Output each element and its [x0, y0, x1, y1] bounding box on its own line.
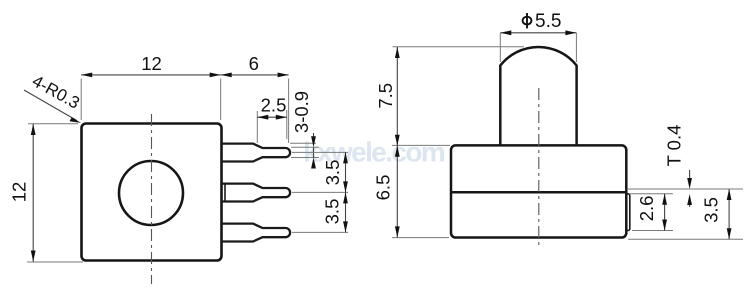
dimension 12 (left height): [28, 123, 78, 125]
dimension 3-0.9 (pin diameter callout): [290, 142, 316, 144]
dimension 3.5 (pin pitch lower): [345, 192, 347, 232]
dimension 12 (top width): [80, 79, 82, 121]
right view: terminal tab on right: [626, 194, 630, 231]
dimension 6 (pin length): [288, 79, 290, 144]
right view: plunger button: [500, 47, 576, 145]
svg-text:3.5: 3.5: [322, 160, 343, 186]
pin 1 (top): [222, 144, 290, 162]
pin centerline extensions: [292, 151, 348, 153]
dimension phi5.5 (button diameter): [499, 33, 501, 62]
svg-text:T 0.4: T 0.4: [664, 125, 685, 167]
svg-text:7.5: 7.5: [375, 83, 396, 109]
right view: vertical centerline (dashed): [538, 88, 540, 246]
svg-text:2.6: 2.6: [636, 196, 657, 222]
svg-text:12: 12: [141, 53, 162, 74]
dimension 7.5 (button height): [393, 46, 525, 48]
svg-text:6: 6: [249, 53, 259, 74]
right view: body: [451, 145, 626, 237]
label 4-R0.3 corner radius leader: [24, 90, 77, 121]
svg-text:12: 12: [9, 182, 30, 203]
dimension 3.5 (pin pitch upper): [345, 152, 347, 192]
svg-text:2.5: 2.5: [261, 95, 287, 116]
pin 3 (bottom): [222, 224, 290, 242]
svg-text:3-0.9: 3-0.9: [291, 91, 312, 133]
left view: vertical centerline (dashed): [151, 114, 153, 284]
svg-text:5.5: 5.5: [535, 11, 561, 32]
left view: switch body square: [82, 124, 222, 261]
dimension 2.5 (pin tip length): [256, 111, 258, 143]
dimension T0.4 (divider thickness): [628, 188, 743, 190]
pin 2 (middle): [222, 184, 290, 202]
left view: button circle: [119, 161, 183, 225]
svg-text:6.5: 6.5: [373, 175, 394, 201]
dimension 3.5 (below divider): [628, 238, 743, 240]
right view: body divider line: [451, 191, 626, 194]
dimension 6.5 (body height): [392, 237, 449, 239]
svg-text:3.5: 3.5: [701, 197, 722, 223]
dimension 2.6 (terminal height): [630, 193, 673, 195]
svg-text:3.5: 3.5: [322, 199, 343, 225]
pin 2 base line: [224, 185, 226, 201]
